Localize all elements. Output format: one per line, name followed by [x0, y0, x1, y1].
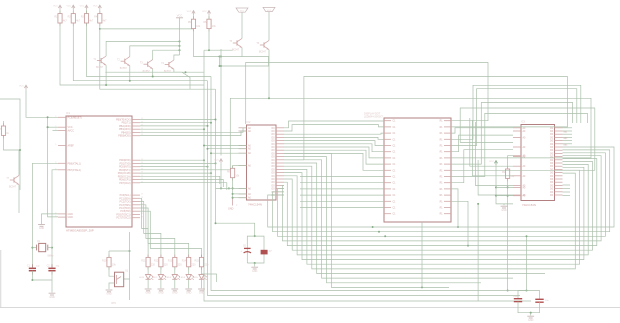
svg-text:BC547: BC547	[9, 187, 17, 189]
wire IC2-disp row2	[284, 133, 384, 134]
wire Q2 emitter	[129, 66, 131, 81]
svg-text:ATMEGA8535P_DIP: ATMEGA8535P_DIP	[66, 229, 94, 233]
svg-text:BC557: BC557	[164, 71, 172, 73]
wire leg ic3l 195	[478, 160, 513, 195]
svg-text:220: 220	[164, 263, 169, 266]
wire avcc pin	[53, 129, 59, 131]
svg-text:GND: GND	[158, 292, 164, 295]
ground GNDL4	[185, 289, 192, 295]
junction b1c	[384, 235, 386, 237]
svg-text:VCC: VCC	[177, 14, 183, 18]
wire long v2	[208, 81, 521, 296]
junction b3	[421, 286, 423, 288]
junction dots on VCC stem	[178, 40, 180, 51]
IC2 right pins	[271, 128, 284, 197]
svg-text:LED1: LED1	[139, 277, 145, 279]
wire c34 loop	[247, 236, 264, 263]
svg-text:VCC: VCC	[53, 6, 58, 8]
junction pd2	[207, 166, 209, 168]
svg-text:GND: GND	[68, 216, 74, 219]
wire Q1 emitter	[105, 65, 107, 85]
wire c56 right	[527, 291, 540, 300]
ground GNDL1	[145, 289, 152, 295]
junction x2	[51, 247, 53, 249]
driver IC3 box	[521, 121, 555, 207]
net labels right of IC3	[564, 132, 569, 147]
svg-text:IC2: IC2	[247, 121, 252, 124]
resistor R12	[154, 255, 168, 270]
svg-text:VCC: VCC	[66, 6, 71, 8]
wire MCU PD3 to P6	[140, 169, 230, 171]
wire bus net 7	[284, 167, 584, 259]
svg-text:8MHz: 8MHz	[48, 256, 55, 258]
junction r6b	[208, 49, 210, 51]
wire led gnd 4	[188, 279, 190, 288]
switch S1	[115, 271, 129, 287]
wire mcu-ic2 3	[204, 145, 247, 147]
wire R6 top	[208, 15, 210, 19]
wire bus net 4	[284, 159, 597, 246]
svg-text:VCC: VCC	[240, 10, 245, 12]
IC1 right pins	[116, 118, 143, 220]
wire IC2-disp row5	[284, 144, 384, 152]
wire ic2 5	[211, 152, 247, 154]
driver IC2 box	[247, 121, 277, 206]
wire mcu-ic2 1	[140, 128, 247, 133]
wire disp left row9	[300, 176, 384, 178]
wire sw gnd	[109, 283, 115, 289]
junction vmid	[220, 187, 222, 189]
microcontroller IC1 box	[66, 111, 132, 232]
wire elbow 269 drop	[268, 66, 270, 98]
transistor Q2	[117, 57, 130, 70]
ground GND1	[38, 225, 45, 231]
wire gnd IC3	[496, 196, 513, 204]
wire bus net 11	[284, 160, 513, 278]
wire disp k13 drop	[451, 201, 468, 245]
wire q7 c	[18, 150, 20, 175]
wire R6 down	[208, 29, 210, 50]
svg-text:PB5(MOSI): PB5(MOSI)	[118, 135, 130, 138]
junction c34 bot	[254, 262, 256, 264]
wire mcu-ic2 4	[208, 148, 247, 150]
wire IC2-disp row3	[284, 137, 384, 139]
svg-text:100n: 100n	[513, 296, 519, 298]
capacitor C1	[27, 264, 40, 274]
supply VCC V5	[187, 11, 195, 16]
wire Q6 collector	[268, 12, 270, 41]
wire net P10	[451, 150, 513, 183]
wire led gnd 3	[174, 279, 176, 288]
wire led feed 4	[140, 208, 189, 257]
wire disp left row14	[300, 207, 384, 209]
wire net P5	[451, 135, 513, 152]
svg-text:PD7(OC2): PD7(OC2)	[119, 182, 130, 185]
supply VCC V3	[80, 5, 88, 10]
wire led 2	[160, 267, 162, 275]
junction Q1-rail	[105, 84, 107, 86]
junction i2l4	[207, 148, 209, 150]
junction k11	[457, 226, 459, 228]
junction q56	[219, 65, 221, 67]
wire net P1	[304, 77, 568, 160]
wire IC2-disp row7	[284, 150, 384, 164]
svg-text:4k7: 4k7	[89, 20, 94, 23]
wire R5 down	[194, 29, 220, 57]
capacitor C6	[535, 299, 549, 302]
wire vcc-pins	[496, 187, 513, 195]
junction c34f	[215, 222, 217, 224]
wire net P8	[451, 108, 595, 170]
resistor R7	[0, 123, 10, 138]
resistor R3	[81, 11, 94, 26]
svg-text:IC3: IC3	[521, 121, 526, 124]
wire disp left row13	[300, 200, 384, 202]
wire disp bottom drop	[421, 222, 423, 287]
wire r7 h	[0, 99, 20, 190]
wire r10 bot	[109, 267, 115, 276]
wire mcu pb2	[140, 125, 208, 127]
wire emitter rail	[220, 49, 222, 156]
svg-text:VCC: VCC	[187, 11, 192, 13]
svg-text:R15: R15	[195, 259, 200, 262]
junction r9b2	[507, 195, 509, 197]
junction b1b	[378, 231, 380, 233]
resistor R6	[203, 16, 216, 31]
wire mcu pd7	[140, 183, 227, 190]
wire net P2	[451, 128, 513, 133]
wire sw v2	[129, 279, 131, 300]
svg-text:PC6(RESET): PC6(RESET)	[68, 116, 82, 119]
junction gd1	[477, 203, 479, 205]
wire mcu pd0	[140, 159, 204, 161]
ground GND4	[501, 206, 508, 212]
crystal Q1	[32, 241, 54, 258]
svg-text:PB6(XTAL1): PB6(XTAL1)	[68, 162, 81, 165]
wire xtal2	[52, 170, 58, 268]
junction r8d	[232, 197, 234, 199]
wire r7 top	[3, 121, 5, 126]
resistor R14	[182, 255, 196, 270]
wire led 4	[188, 267, 190, 275]
svg-text:4k7: 4k7	[76, 20, 81, 23]
junction r9	[507, 186, 509, 188]
wire led feed 5	[140, 211, 202, 257]
capacitor C3 (elco)	[241, 245, 252, 253]
svg-text:R11: R11	[141, 259, 146, 262]
wire mcu-ic2 2	[140, 131, 247, 136]
resistor R2	[68, 11, 81, 26]
ground GNDL5	[198, 289, 205, 295]
svg-text:GND: GND	[39, 227, 45, 230]
supply VCC V4	[93, 5, 101, 10]
wire led5 jog	[202, 274, 217, 282]
transistor Q5	[229, 38, 242, 51]
wire disp left row10	[300, 182, 384, 184]
resistor R13	[168, 255, 182, 270]
junction pb0	[215, 119, 217, 121]
wire xtal1	[32, 163, 58, 268]
wire bus net 5	[284, 162, 593, 251]
LED matrix display DIS1 box and pins	[364, 113, 451, 222]
svg-text:PC7(TOSC2): PC7(TOSC2)	[116, 217, 130, 220]
resistor R5	[188, 16, 201, 31]
wire net P4	[451, 89, 577, 146]
IC2 left pins	[239, 127, 252, 200]
junction pd0	[203, 159, 205, 161]
junction elbow269	[268, 97, 270, 99]
transistor Q7	[6, 175, 19, 188]
junction r8c	[232, 193, 234, 195]
wire led gnd 2	[160, 279, 162, 288]
wire Q5 emitter	[241, 48, 243, 57]
wire q7 e	[18, 185, 20, 213]
svg-text:LED3: LED3	[166, 277, 172, 279]
svg-text:GND: GND	[228, 208, 234, 211]
IC2 power stub	[228, 198, 238, 211]
wire mcu pd2	[140, 166, 208, 168]
svg-text:R13: R13	[168, 259, 173, 262]
wire R8 bottom	[232, 178, 234, 198]
wire led feed 2	[140, 202, 161, 258]
ground GNDL2	[158, 289, 165, 295]
svg-text:VCC: VCC	[19, 86, 24, 88]
svg-text:VCC: VCC	[80, 6, 85, 8]
resistor R4	[94, 11, 107, 26]
wire c56 rbot	[531, 302, 540, 313]
wire R5 top	[193, 15, 195, 19]
junction sw	[129, 250, 131, 252]
wire bus net 6	[284, 164, 588, 255]
wire gnd drop	[477, 204, 479, 301]
wire Q6 emitter	[268, 50, 270, 66]
svg-text:R12: R12	[154, 259, 159, 262]
wire bus net 8	[284, 169, 580, 264]
svg-text:GND: GND	[199, 292, 205, 295]
svg-text:VCC: VCC	[202, 11, 207, 13]
svg-text:220: 220	[204, 263, 209, 266]
transistor Q6	[256, 40, 269, 53]
ground GND3	[106, 290, 113, 296]
wire IC2-disp row8	[284, 153, 384, 170]
svg-text:GND: GND	[501, 209, 507, 212]
junction R5 rail	[218, 55, 220, 57]
wire vcc mid stem	[220, 163, 222, 188]
wire sw v	[124, 232, 130, 279]
junction ic2-5	[210, 152, 212, 154]
capacitor C2	[47, 264, 60, 274]
ground GNDL3	[171, 289, 178, 295]
wire net P7	[451, 103, 573, 165]
transistor Q1	[93, 56, 106, 69]
svg-text:BC557: BC557	[120, 68, 128, 70]
wire R9 top	[508, 156, 513, 169]
junction e-rail	[220, 56, 222, 67]
svg-text:4k7: 4k7	[63, 20, 68, 23]
wire bus net 3	[282, 156, 601, 241]
wire R1 top	[59, 10, 61, 14]
svg-text:LED2: LED2	[152, 277, 158, 279]
wire led 5	[201, 267, 203, 275]
wire caps join	[32, 271, 52, 280]
wire disp k11	[451, 189, 458, 227]
wire bus net 10	[284, 163, 545, 274]
transistor Q4	[161, 60, 174, 73]
ground GND2	[49, 293, 56, 299]
resistor R8	[227, 166, 240, 181]
svg-text:74HC154N: 74HC154N	[248, 203, 262, 207]
wire c56 lbot	[518, 302, 531, 313]
ground GND6	[527, 316, 534, 322]
svg-text:VCC: VCC	[214, 159, 219, 161]
svg-text:74HC154N: 74HC154N	[522, 203, 536, 207]
svg-text:4k7: 4k7	[103, 20, 108, 23]
frame border bottom	[0, 250, 620, 308]
wire led 3	[174, 267, 176, 275]
junction c34 top	[254, 235, 256, 237]
svg-text:IC1: IC1	[66, 111, 71, 115]
wire r10 top	[108, 251, 110, 257]
wire led gnd 1	[147, 279, 149, 288]
junction v9b	[495, 195, 497, 197]
IC3 right pins	[550, 128, 563, 197]
svg-text:GND: GND	[528, 319, 534, 322]
junction r9b3	[507, 290, 509, 292]
wire c34 feed	[216, 223, 255, 236]
junction b1	[372, 226, 374, 228]
wire r10 h	[109, 250, 130, 252]
wire led 1	[147, 267, 149, 275]
svg-text:GND: GND	[252, 270, 258, 273]
wire net P3	[451, 85, 581, 139]
junction x1	[31, 247, 33, 249]
wire Q1 collector	[106, 41, 179, 56]
svg-text:AREF: AREF	[68, 145, 75, 148]
junction pb3	[203, 128, 205, 130]
wire IC2-disp row0	[284, 121, 384, 128]
ground GND5	[251, 267, 258, 273]
svg-text:GND: GND	[145, 292, 151, 295]
svg-text:220: 220	[151, 263, 156, 266]
junction r8b	[232, 187, 234, 189]
svg-text:BC557: BC557	[96, 67, 104, 69]
wire bus net 12	[284, 157, 481, 283]
supply VCC V2	[66, 5, 74, 10]
wire mcu pd4	[140, 172, 211, 174]
wire bus net 13	[284, 153, 449, 287]
svg-text:220: 220	[192, 263, 197, 266]
wire Q4 emitter	[174, 69, 190, 89]
supply VCC V8	[263, 7, 275, 11]
junction vl2	[47, 126, 49, 128]
junction pb1	[210, 122, 212, 124]
svg-text:LED5: LED5	[192, 277, 198, 279]
wire IC3 right stubs	[563, 128, 573, 196]
wire VCC IC3	[495, 165, 497, 196]
LED D5	[192, 275, 206, 280]
LED D2	[152, 275, 166, 280]
junction v9a	[495, 186, 497, 188]
wire disp left row11	[300, 188, 384, 190]
junction c56t	[526, 235, 528, 237]
svg-text:BC547: BC547	[232, 50, 240, 52]
svg-text:DT6: DT6	[112, 303, 117, 305]
wire mcu pd6	[140, 180, 223, 188]
resistor R1	[54, 11, 67, 26]
IC1 left pins	[55, 116, 82, 219]
wire Q5Q6 loop rect	[220, 57, 269, 67]
svg-text:GND: GND	[106, 293, 112, 296]
junction Q2-rail	[129, 80, 131, 82]
wire mcu pb0	[140, 119, 216, 121]
svg-text:VCC: VCC	[267, 10, 272, 12]
svg-text:220: 220	[178, 263, 183, 266]
wire IC2-disp row1	[284, 125, 384, 131]
wire bus net 1	[273, 150, 610, 232]
wire mcu pd5	[140, 176, 220, 184]
wire vcc-ic2 pins	[216, 188, 247, 197]
wire R3 top	[86, 10, 88, 14]
svg-text:BC547: BC547	[259, 52, 267, 54]
wire mcu pb1	[140, 122, 211, 124]
junction r8a	[228, 187, 230, 189]
wire gnd left	[51, 280, 53, 293]
wire long v3	[211, 77, 527, 291]
wire c56 drop	[526, 236, 528, 290]
supply VCC bar	[176, 14, 183, 18]
resistor R10	[102, 255, 116, 270]
junction pd1	[215, 162, 217, 164]
wire c56 left	[518, 291, 527, 299]
wire mcu pb3	[140, 128, 204, 130]
svg-text:R10: R10	[102, 259, 107, 262]
IC3 left pins	[513, 127, 526, 198]
LED D4	[180, 275, 194, 280]
wire R8 top	[232, 165, 234, 168]
supply VCC V10	[214, 159, 222, 164]
junction cj	[31, 279, 33, 281]
svg-text:VCC: VCC	[93, 6, 98, 8]
svg-text:PB7(XTAL2): PB7(XTAL2)	[68, 169, 81, 172]
switch label	[112, 303, 117, 305]
wire R8 pin	[233, 164, 247, 166]
wire vcc left	[26, 90, 58, 118]
wire gnd stub	[503, 204, 505, 205]
wire R4 to rail	[100, 23, 216, 89]
LED D3	[166, 275, 180, 280]
svg-text:R14: R14	[182, 259, 187, 262]
svg-text:LED4: LED4	[180, 277, 186, 279]
svg-text:AVCC: AVCC	[68, 129, 75, 132]
capacitor C4	[261, 250, 273, 255]
junction pd4	[210, 172, 212, 174]
wire R4-R5 link	[100, 28, 194, 30]
junction Q3-rail	[152, 75, 154, 77]
junction q7	[19, 149, 21, 151]
wire long v1	[204, 50, 531, 301]
wire led feed 3	[140, 205, 175, 258]
wire leg ic3l 175	[472, 120, 513, 176]
svg-text:GND: GND	[172, 292, 178, 295]
wire Q5 collector	[241, 12, 243, 38]
wire bus net 2	[278, 153, 606, 237]
resistor R15	[195, 255, 209, 270]
resistor R11	[141, 255, 155, 270]
wire IC2-disp row4	[284, 141, 384, 146]
resistor R9	[502, 166, 515, 181]
wire Q4 collector	[174, 55, 180, 60]
wire long v4	[215, 89, 217, 223]
